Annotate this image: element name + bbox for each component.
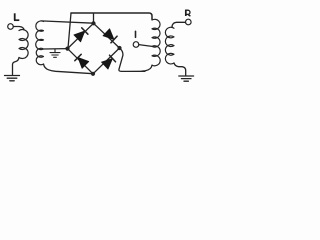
node right — [117, 46, 121, 50]
diode D2 upper-right — [103, 29, 117, 43]
inductor R output coil — [165, 27, 174, 64]
wire bridge arm upper-left — [68, 23, 94, 48]
ground (right) — [179, 76, 194, 81]
label R — [186, 10, 191, 17]
label L — [14, 13, 19, 20]
wire left winding top to bridge top node — [41, 21, 94, 23]
transformer right winding — [152, 19, 160, 65]
ground (left) — [5, 76, 20, 81]
node top — [91, 21, 95, 25]
inductor L input coil — [19, 29, 28, 58]
node left — [65, 47, 69, 51]
ground (center tap) — [50, 49, 60, 57]
label I — [135, 31, 137, 37]
wire left winding center tap to left node — [44, 48, 68, 50]
terminal I — [133, 42, 139, 48]
wire top node up to top rail — [93, 14, 95, 23]
wire top rail down to left node — [68, 13, 71, 48]
wire bridge arm lower-right — [93, 48, 120, 74]
terminal L — [8, 24, 14, 30]
wire left winding bottom to bridge bottom node — [44, 64, 94, 74]
wire right node down to bottom-right rail — [119, 48, 145, 71]
wire top rail — [71, 13, 152, 20]
wire R coil to ground — [174, 63, 186, 75]
transformer left winding — [36, 21, 44, 65]
wire bridge arm lower-left — [68, 49, 94, 74]
diode D3 lower-left — [75, 54, 89, 68]
node bottom — [91, 72, 95, 76]
terminal R — [186, 19, 192, 25]
wire R terminal to coil — [172, 22, 186, 27]
wire right winding center tap to I terminal — [139, 45, 152, 47]
diode D4 lower-right — [102, 55, 116, 69]
wire right winding bottom to rail — [142, 65, 152, 71]
diode D1 upper-left — [74, 28, 88, 42]
wire L coil to ground — [13, 58, 20, 75]
wire L terminal to coil — [13, 27, 24, 31]
wire bridge arm upper-right — [94, 23, 120, 48]
